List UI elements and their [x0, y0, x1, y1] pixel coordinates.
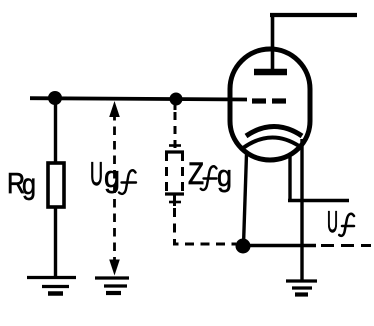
svg-text:g: g: [104, 161, 120, 194]
wire: Uf output wire: [288, 199, 349, 202]
triode U1: grid (dashed): [252, 98, 286, 103]
wire: right lead to ground: [300, 139, 303, 281]
triode U1: anode plate: [254, 69, 287, 76]
triode U1: envelope: [230, 49, 310, 160]
wire: plate supply wire (top): [270, 13, 357, 17]
ground (under Rg): [27, 278, 76, 294]
impedance Zfg (dashed box): [165, 99, 236, 244]
label Zfg: [188, 156, 232, 193]
svg-text:g: g: [22, 169, 36, 201]
resistor Rg: [48, 98, 64, 277]
wire: anode lead: [271, 14, 275, 70]
node: junction dot at Rg branch: [48, 91, 62, 105]
wire: cathode return (solid segment): [243, 244, 316, 247]
triode U1: cathode arc: [246, 127, 302, 137]
wire: heater lead: [288, 154, 291, 199]
node: cathode junction dot: [236, 239, 251, 254]
voltage arrow Ugf (dashed double-headed): [109, 101, 120, 276]
wire: cathode lead to junction: [244, 154, 247, 245]
wire: main grid wire: [30, 98, 247, 99]
svg-text:U: U: [90, 155, 103, 192]
node: junction dot at Zfg branch: [170, 93, 183, 106]
label Ugf: [90, 155, 136, 194]
svg-text:U: U: [327, 206, 338, 239]
ground (under Ugf arrow): [95, 278, 129, 293]
label Rg: [7, 168, 36, 201]
svg-text:g: g: [217, 160, 232, 193]
triode U1: heater arc: [243, 137, 299, 148]
ground (right): [286, 281, 317, 295]
svg-text:Z: Z: [188, 156, 204, 191]
wire: return line dashed continuation: [321, 244, 371, 247]
label Uf: [327, 206, 354, 239]
